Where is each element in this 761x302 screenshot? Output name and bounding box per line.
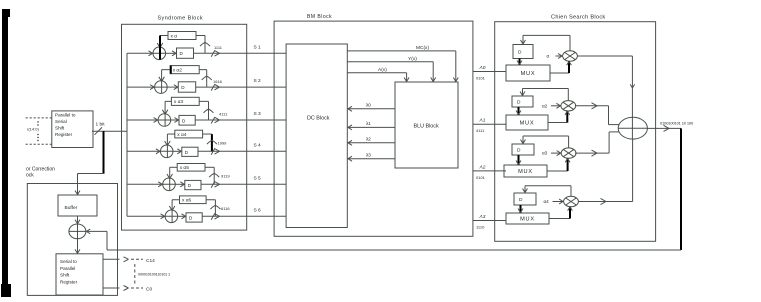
svg-text:9119: 9119	[221, 174, 230, 179]
svg-text:MUX: MUX	[520, 216, 535, 222]
XOR adder row 2	[155, 77, 168, 94]
svg-text:A(x): A(x)	[378, 67, 387, 73]
wire Lambda2 BM to MUX3	[473, 170, 506, 172]
bus width slash row 1	[211, 50, 219, 56]
BM Block border	[274, 21, 473, 236]
wire: serial input bus	[126, 53, 128, 216]
wire MC from DC to BLU	[347, 51, 458, 82]
wire: XOR to D row 1	[166, 51, 177, 56]
svg-text:C14: C14	[146, 258, 155, 264]
svg-text:C0: C0	[146, 287, 152, 293]
syndrome row 1 input wire	[127, 51, 166, 56]
Buffer box	[58, 195, 97, 216]
svg-text:DC Block: DC Block	[307, 116, 330, 122]
chien cell 3 feedback wire	[521, 136, 569, 148]
wire: multiplier output into XOR row 5	[170, 167, 178, 190]
svg-text:0101: 0101	[476, 175, 486, 180]
wire: D output row 6	[202, 215, 286, 217]
chien cell 4 feedback wire	[523, 186, 571, 197]
feedback wire bottom to error corrector	[86, 229, 681, 250]
svg-text:Parallel to: Parallel to	[55, 113, 76, 118]
svg-text:Λ2: Λ2	[479, 164, 486, 170]
Syndrome Block border	[122, 24, 247, 230]
svg-text:Shift: Shift	[60, 273, 70, 278]
DC Block box	[286, 44, 347, 228]
multiplier box row 2	[170, 66, 199, 74]
XOR adder row 6	[165, 206, 178, 223]
svg-text:MC(x): MC(x)	[416, 45, 429, 51]
svg-text:ock: ock	[26, 173, 34, 179]
svg-text:Λ0: Λ0	[479, 65, 486, 71]
svg-text:α3: α3	[542, 151, 548, 156]
parallel input lines r(14:0)	[26, 118, 52, 144]
wire: bold serial branch down to error correction	[75, 131, 104, 195]
svg-text:S 3: S 3	[254, 111, 262, 117]
chien cell 4 multiplier circle	[564, 196, 579, 206]
svg-text:λ3: λ3	[366, 153, 371, 158]
svg-text:MUX: MUX	[521, 71, 536, 77]
chien cell 4 MUX	[506, 213, 549, 224]
chien cell 1 D flip-flop	[513, 45, 533, 59]
D flip-flop row 1	[177, 48, 194, 58]
svg-text:0100100101 10 100: 0100100101 10 100	[660, 120, 694, 125]
svg-text:Chien Search Block: Chien Search Block	[551, 15, 606, 21]
chien cell 1 alpha constant	[547, 54, 563, 59]
left edge black bar artifact	[1, 9, 11, 297]
svg-text:Serial to: Serial to	[60, 259, 77, 264]
chien cell 4 MUX output to multiplier	[549, 207, 572, 219]
svg-text:λ1: λ1	[366, 121, 371, 126]
svg-text:x α4: x α4	[177, 132, 187, 138]
D flip-flop row 6	[186, 213, 202, 222]
wire Y from DC to BLU	[347, 62, 435, 82]
chien cell 1 MUX output to multiplier	[550, 61, 571, 73]
bold mark row 2	[170, 66, 172, 74]
chien cell 2 MUX	[506, 115, 548, 130]
wire: D output row 1	[194, 52, 287, 54]
svg-text:x α6: x α6	[182, 198, 192, 204]
wire A from DC to BLU	[347, 73, 409, 82]
bus width slash row 5	[211, 181, 219, 187]
svg-text:4111: 4111	[219, 111, 228, 116]
svg-text:x α3: x α3	[174, 99, 184, 105]
chien cell 3 D to MUX wire	[516, 155, 521, 165]
feedback wire row 3	[199, 101, 213, 120]
chien cell 3 alpha constant	[542, 151, 561, 156]
wire: multiplier output into XOR row 6	[172, 200, 179, 223]
XOR adder row 4	[160, 141, 173, 158]
svg-text:x α2: x α2	[173, 67, 183, 73]
svg-text:MUX: MUX	[520, 120, 535, 126]
syndrome row 3 input wire	[127, 118, 171, 123]
svg-text:1999: 1999	[218, 140, 228, 145]
svg-text:4111: 4111	[476, 128, 485, 133]
svg-text:1 bit: 1 bit	[96, 122, 106, 128]
feedback wire row 4	[203, 134, 217, 151]
svg-text:S 1: S 1	[254, 44, 262, 50]
Error Correction block border	[27, 184, 117, 296]
svg-text:Λ3: Λ3	[479, 214, 486, 220]
svg-text:D: D	[518, 50, 522, 56]
svg-text:Register: Register	[60, 279, 78, 284]
feedback wire row 2	[199, 70, 212, 87]
multiplier box row 6	[180, 196, 207, 204]
wire: D output row 3	[195, 119, 286, 121]
svg-text:α4: α4	[544, 199, 550, 204]
error XOR adder	[69, 224, 86, 239]
XOR adder row 3	[158, 110, 171, 127]
wire: D output row 5	[201, 183, 286, 185]
big XOR adder	[618, 117, 647, 139]
wire: multiplier output into XOR row 3	[165, 101, 171, 126]
wire lambda2 BLU to DC	[347, 140, 395, 145]
wire XOR to Serial-to-Parallel	[75, 239, 80, 254]
svg-text:1111: 1111	[214, 45, 223, 50]
chien cell 4 D flip-flop	[514, 193, 536, 205]
chien cell 1 feedback wire	[521, 35, 570, 50]
chien cell 3 multiplier circle	[561, 148, 576, 158]
BLU Block box	[395, 82, 458, 168]
svg-text:Λ1: Λ1	[479, 118, 486, 124]
wire output C0	[103, 286, 143, 291]
svg-text:r(14:0): r(14:0)	[27, 127, 39, 132]
syndrome row 6 input wire	[127, 214, 178, 219]
chien cell 2 multiplier circle	[561, 101, 576, 111]
wire chien cell 2 output to adder	[575, 103, 619, 125]
output wire with arrow	[647, 125, 681, 131]
wire chien cell 3 output to adder	[575, 132, 619, 156]
svg-text:D: D	[519, 197, 523, 203]
Parallel to Serial Shift Register box	[52, 111, 93, 148]
D flip-flop row 3	[179, 115, 195, 125]
wire chien cell 1 output to adder	[577, 56, 635, 117]
chien cell 3 MUX output to multiplier	[547, 158, 570, 171]
wire: D output row 4	[198, 150, 286, 152]
wire: multiplier output into XOR row 4	[167, 134, 174, 158]
chien cell 2 MUX output to multiplier	[548, 111, 570, 123]
svg-text:Y(x): Y(x)	[408, 56, 417, 62]
Serial to Parallel Shift Register box	[56, 254, 103, 295]
feedback wire row 1	[196, 36, 210, 54]
svg-text:BM Block: BM Block	[307, 14, 332, 20]
D flip-flop row 2	[178, 82, 195, 92]
wire Lambda1 BM to MUX2	[473, 123, 506, 125]
dashed range connector	[134, 264, 136, 286]
bus width slash row 6	[211, 213, 219, 219]
chien cell 1 multiplier circle	[563, 51, 578, 61]
wire: XOR to D row 5	[175, 182, 185, 187]
multiplier box row 1	[168, 32, 196, 40]
svg-text:S 5: S 5	[254, 175, 262, 181]
chien cell 1 D to MUX wire	[517, 59, 522, 66]
svg-text:BLU Block: BLU Block	[414, 124, 439, 130]
wire output C14	[103, 257, 143, 262]
svg-text:α2: α2	[542, 103, 548, 108]
svg-text:Serial: Serial	[55, 119, 67, 124]
feedback wire row 5	[205, 167, 219, 184]
svg-text:S 4: S 4	[254, 142, 262, 148]
feedback wire row 6	[206, 200, 220, 217]
wire lambda1 BLU to DC	[347, 125, 395, 130]
chien cell 2 D to MUX wire	[516, 107, 521, 115]
chien cell 4 alpha constant	[544, 199, 564, 204]
svg-text:Parallel: Parallel	[60, 266, 75, 271]
chien cell 2 D flip-flop	[512, 96, 533, 107]
svg-text:000010100110101 1: 000010100110101 1	[138, 273, 170, 277]
bus width slash row 3	[211, 117, 219, 123]
svg-text:D: D	[517, 148, 521, 154]
bus width slash row 4	[211, 148, 219, 154]
svg-text:Register: Register	[55, 132, 73, 137]
svg-text:Shift: Shift	[55, 126, 65, 131]
svg-text:S 6: S 6	[254, 207, 262, 213]
svg-text:MUX: MUX	[518, 169, 533, 175]
multiplier box row 5	[177, 164, 205, 172]
XOR adder row 5	[163, 174, 176, 191]
wire lambda3 BLU to DC	[347, 156, 395, 161]
wire: XOR to D row 4	[173, 149, 182, 154]
wire: XOR to D row 2	[167, 85, 178, 90]
svg-text:0101: 0101	[476, 76, 486, 81]
svg-text:x α: x α	[171, 34, 178, 39]
D flip-flop row 4	[182, 147, 198, 156]
D flip-flop row 5	[185, 180, 201, 189]
svg-text:λ0: λ0	[366, 103, 371, 108]
multiplier box row 4	[175, 130, 203, 138]
wire lambda0 BLU to DC	[347, 106, 395, 111]
multiplier box row 3	[171, 97, 199, 105]
wire: XOR to D row 6	[178, 214, 186, 219]
syndrome row 4 input wire	[127, 149, 173, 154]
bold feedback wire down	[680, 128, 682, 250]
wire: D output row 2	[196, 86, 286, 88]
chien cell 3 D flip-flop	[512, 144, 534, 155]
wire: multiplier output into XOR row 2	[162, 70, 171, 94]
Chien Search Block border	[495, 22, 656, 242]
wire: multiplier output into XOR row 1	[160, 36, 168, 60]
bus width slash row 2	[211, 84, 219, 90]
wire Buffer to XOR	[75, 216, 80, 224]
XOR adder row 1	[153, 43, 166, 60]
chien cell 4 D to MUX wire	[518, 205, 523, 213]
svg-text:x α5: x α5	[180, 165, 190, 171]
chien cell 2 feedback wire	[520, 89, 568, 101]
svg-text:α: α	[547, 54, 550, 59]
chien cell 1 MUX	[506, 65, 550, 81]
svg-text:6116: 6116	[221, 206, 230, 211]
svg-text:Buffer: Buffer	[65, 205, 78, 211]
svg-text:λ2: λ2	[366, 137, 371, 142]
chien cell 3 MUX	[504, 165, 547, 177]
svg-text:1616: 1616	[213, 79, 223, 84]
syndrome row 5 input wire	[127, 182, 175, 187]
wire: serial 1 bit output	[92, 127, 127, 134]
wire Lambda3 BM to MUX4	[473, 220, 506, 222]
wire Lambda0 BM to MUX1	[473, 71, 506, 73]
svg-text:S 2: S 2	[254, 78, 262, 84]
wire chien cell 4 output to adder	[578, 139, 633, 204]
syndrome row 2 input wire	[127, 85, 167, 90]
wire: XOR to D row 3	[171, 118, 179, 123]
svg-text:D: D	[517, 100, 521, 106]
chien cell 2 alpha constant	[542, 103, 561, 108]
svg-text:Syndrome Block: Syndrome Block	[158, 16, 204, 22]
svg-text:1110: 1110	[476, 225, 485, 230]
